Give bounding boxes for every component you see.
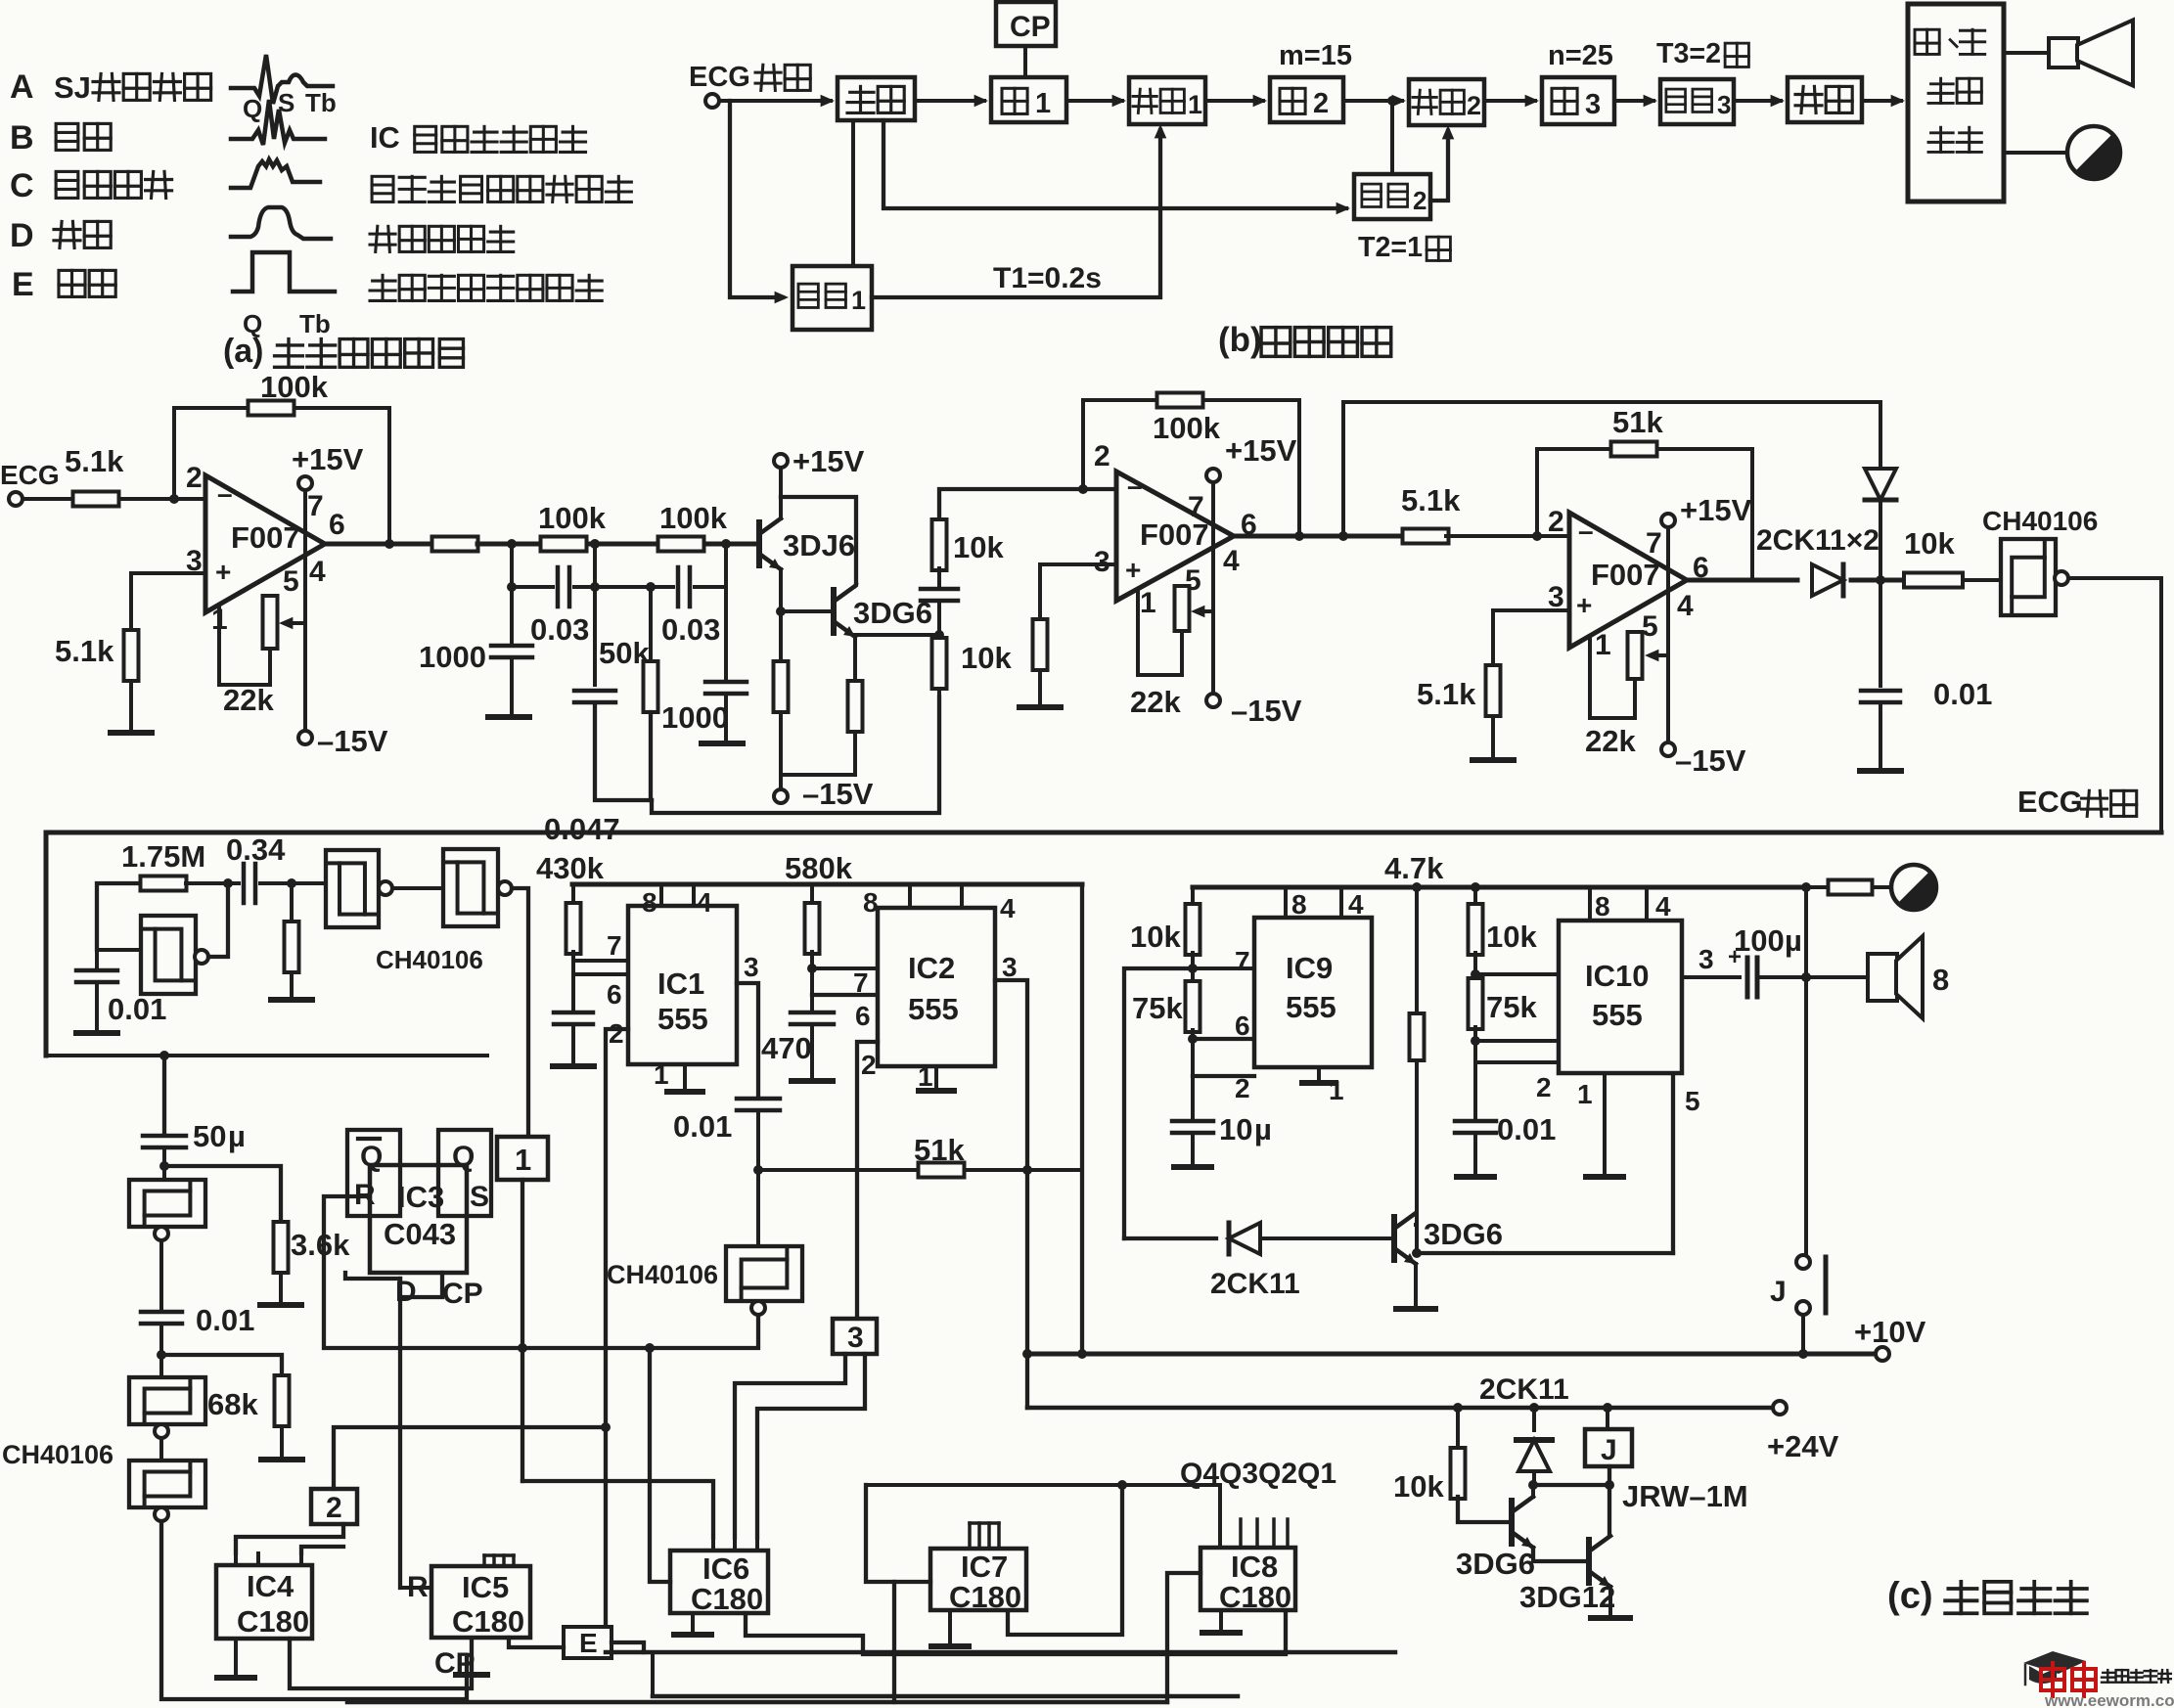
pin4 stub IC2: [960, 884, 964, 908]
wire +24V rail: [1027, 1406, 1773, 1411]
pin4 stub IC10: [1645, 887, 1649, 921]
svg-text:CH40106: CH40106: [2, 1440, 113, 1469]
label +15V transistors: [774, 454, 788, 468]
wire U1 pin1 down: [217, 608, 221, 685]
wire timing cap to ground: [571, 1026, 575, 1064]
svg-text:4: 4: [697, 887, 712, 918]
waveform C (rectified): [231, 159, 320, 188]
wire box3 route A to IC6: [735, 1354, 845, 1538]
ground below 3.6k: [260, 1302, 301, 1308]
svg-text:E: E: [579, 1628, 598, 1658]
svg-text:2: 2: [609, 1018, 624, 1049]
svg-text:1: 1: [1035, 88, 1051, 119]
svg-text:ECG: ECG: [2017, 785, 2083, 819]
IC2 555 body: [878, 908, 995, 1066]
svg-text:8: 8: [1932, 963, 1949, 997]
wire diode to node: [1851, 578, 1901, 583]
svg-text:2CK11: 2CK11: [1210, 1268, 1300, 1300]
svg-text:1: 1: [1188, 90, 1202, 119]
svg-text:µ: µ: [1785, 923, 1802, 958]
wire U2 offset loop bottom: [1138, 673, 1182, 677]
svg-text:50: 50: [193, 1119, 226, 1153]
svg-text:100k: 100k: [538, 501, 607, 535]
resistor 51k feedback U3: [1611, 442, 1657, 457]
svg-text:Tb: Tb: [299, 309, 331, 338]
resistor 1.75M: [141, 876, 187, 891]
wire counter1 to gate2: [1205, 99, 1263, 103]
transistor 3DJ6: [756, 522, 762, 565]
resistor 10k (IC10 top): [1469, 904, 1483, 955]
wire U2 pin3: [1040, 562, 1116, 566]
svg-text:50k: 50k: [599, 636, 650, 670]
resistor 5.1k (pin3 to gnd): [124, 630, 139, 681]
capacitor 0.01 (rectifier): [1861, 689, 1900, 694]
ground below 0.01: [1860, 768, 1901, 774]
wire timer2 up to counter2: [1430, 131, 1448, 201]
svg-text:J: J: [1770, 1276, 1787, 1308]
svg-text:3DG12: 3DG12: [1519, 1580, 1615, 1614]
potentiometer 22k U3: [1628, 632, 1643, 679]
svg-text:CP: CP: [1010, 11, 1051, 43]
IC8 top pins: [1239, 1519, 1243, 1548]
resistor 51k (row): [919, 1163, 965, 1178]
wire IC2 pin3 down to +24V rail: [1025, 1170, 1029, 1408]
resistor 10k (U2 pin3): [1033, 619, 1048, 670]
wire 430k to IC1 pin7: [571, 952, 575, 1009]
ground below 5.1k: [111, 730, 152, 736]
svg-text:4: 4: [1000, 893, 1016, 923]
wire control branch to timer2: [883, 120, 1346, 208]
block 门1 (gate1): [991, 77, 1066, 122]
wire IC1 pin7: [573, 959, 628, 963]
wire IC9 pin7: [1193, 966, 1254, 970]
svg-text:–: –: [1578, 516, 1594, 546]
node -15V terminal transistors: [779, 775, 783, 789]
wire U3 feedback left: [1535, 449, 1539, 536]
wire small schmitt out up to main: [208, 883, 228, 957]
svg-text:C180: C180: [1219, 1580, 1291, 1614]
wire 10k to pin7 (IC10): [1473, 953, 1477, 980]
wire collector rail: [781, 497, 856, 584]
pin4 stub IC1: [692, 884, 696, 906]
label +15V U3: [1661, 514, 1675, 527]
wire box2 up to y1459 line: [334, 1427, 606, 1489]
wire schmitt4 to schmitt5: [159, 1438, 163, 1461]
legend row C impl text: [372, 176, 393, 202]
wire timer1 to counter1 bottom: [872, 130, 1160, 297]
wire U2 pin1 down: [1136, 592, 1140, 675]
watermark 虫虫 red text: [2041, 1663, 2096, 1696]
diode 2CK11 (IC9 area): [1124, 1236, 1216, 1240]
pin1 stub IC1 + ground: [683, 1064, 687, 1089]
wiper arrow 22k U3: [1652, 653, 1668, 657]
wire chain top to U2 pin2: [939, 489, 1116, 521]
resistor 4.7k (collector): [1415, 887, 1419, 1015]
wire U1 output: [325, 542, 432, 547]
svg-text:–: –: [1127, 471, 1143, 501]
wire ECG branch down to timer1: [730, 101, 783, 297]
node schmitt1 output bubble: [379, 881, 392, 895]
wire IC2 pin7: [812, 966, 878, 970]
wire 3DJ6 collector up: [779, 497, 783, 518]
svg-text:+15V: +15V: [1225, 433, 1297, 468]
wire 470 to ground: [810, 1026, 814, 1079]
wire pin3 down to 5.1k: [129, 573, 133, 627]
svg-text:580k: 580k: [785, 851, 853, 885]
ground below 470: [792, 1078, 833, 1084]
svg-text:–15V: –15V: [1231, 694, 1302, 728]
wire 5.1k to U3 pin2: [1446, 534, 1569, 538]
resistor 100k feedback U1: [249, 401, 294, 416]
svg-text:+15V: +15V: [793, 444, 865, 478]
svg-text:IC6: IC6: [702, 1551, 749, 1586]
resistor 75k (IC10): [1469, 978, 1483, 1029]
wire bottom rail 1740: [347, 1700, 1167, 1705]
transistor 3DG6 (relay driver): [1509, 1501, 1515, 1544]
wire IC10 pin7: [1475, 972, 1559, 976]
wire 10k to CH40106: [1963, 578, 2001, 582]
svg-text:0.047: 0.047: [544, 812, 620, 846]
wire 4.7k power rail: [1193, 885, 1806, 890]
svg-text:+: +: [1576, 590, 1592, 620]
wire rail junction down to J switch: [1804, 887, 1808, 1255]
svg-text:7: 7: [607, 930, 622, 961]
wire counter2 to gate3: [1484, 99, 1535, 103]
svg-text:0.03: 0.03: [530, 612, 589, 647]
svg-text:10k: 10k: [1486, 920, 1537, 954]
wire 3DG6 emitter to 3DG12 base: [1533, 1548, 1587, 1561]
wire Q row: [866, 1483, 1220, 1487]
wire +10V rail: [1027, 1352, 1876, 1357]
resistor 75k (IC9): [1186, 981, 1200, 1032]
svg-text:4: 4: [1223, 545, 1240, 577]
potentiometer 22k U2: [1175, 586, 1190, 631]
svg-text:3DG6: 3DG6: [1424, 1217, 1503, 1251]
svg-text:10: 10: [1219, 1112, 1252, 1146]
wire Q row mid down: [1008, 1485, 1122, 1635]
svg-text:6: 6: [855, 1001, 871, 1031]
wire 3DG6 emitter to ground: [1414, 1264, 1418, 1306]
svg-text:D: D: [10, 217, 34, 254]
wire control to gate1: [915, 99, 984, 103]
svg-text:555: 555: [657, 1002, 708, 1036]
wire 4.7k res to 3DG6 collector: [1415, 1060, 1419, 1253]
node schmitt(IC1) output bubble: [751, 1301, 765, 1315]
wire R line to IC5: [400, 1586, 431, 1590]
op-amp U3 F007: [1569, 513, 1687, 648]
IC6 top pins: [711, 1538, 715, 1551]
schmitt inverter 2 (CH40106): [443, 849, 498, 926]
svg-text:8: 8: [1291, 889, 1307, 920]
capacitor 100u electrolytic: [1745, 958, 1750, 997]
watermark logo cap: [2023, 1651, 2086, 1674]
svg-text:C: C: [10, 167, 34, 204]
wire +15V down through U2 to -15V: [1211, 482, 1215, 694]
block 计数2 (counter2): [1409, 79, 1484, 125]
wiper arrow 22k U2: [1198, 609, 1213, 613]
svg-text:6: 6: [1235, 1011, 1250, 1041]
wire rail to 10k (IC10): [1473, 887, 1477, 906]
wire 1.75M to 0.34 cap: [186, 881, 239, 885]
svg-text:2CK11×2: 2CK11×2: [1756, 524, 1880, 557]
svg-text:0.01: 0.01: [1497, 1112, 1556, 1146]
wire rectifier top rail: [1343, 400, 1880, 404]
wire IC1 pin3: [737, 983, 758, 1097]
wire 10u to ground: [1191, 1135, 1195, 1164]
wire IC10 pin2: [1475, 1060, 1559, 1064]
svg-text:430k: 430k: [536, 851, 605, 885]
svg-text:5: 5: [1642, 610, 1658, 643]
svg-text:Q4Q3Q2Q1: Q4Q3Q2Q1: [1180, 1458, 1336, 1490]
svg-text:3: 3: [1094, 546, 1110, 578]
resistor emitter 3DG6: [848, 681, 863, 732]
svg-text:0.01: 0.01: [196, 1303, 254, 1337]
capacitor 0.01 (left): [95, 950, 99, 969]
capacitor 1000 #2: [705, 680, 747, 685]
svg-text:E: E: [12, 266, 34, 303]
node schmitt3 output bubble: [155, 1227, 168, 1240]
svg-text:F007: F007: [1591, 558, 1660, 592]
wire 3DJ6 emitter to 3DG6 base: [781, 609, 832, 613]
wire E box to rail: [611, 1642, 644, 1652]
wire CH40106 out to right edge: [2068, 576, 2161, 580]
wire ECG to R 5.1k: [23, 497, 73, 501]
capacitor 50u: [143, 1134, 186, 1139]
wire 1000#2 to ground: [724, 696, 728, 742]
wire control to timer1 vertical: [851, 120, 855, 297]
wire 10k2 bottom to U loop: [937, 689, 941, 697]
ground below 5.1k U3: [1472, 757, 1514, 763]
svg-text:5.1k: 5.1k: [1417, 677, 1476, 711]
wire CP to gate1: [1023, 46, 1027, 77]
svg-text:1: 1: [1329, 1075, 1344, 1105]
wire node down to 0.01 cap: [1879, 580, 1882, 686]
svg-text:S: S: [470, 1181, 489, 1213]
svg-text:1: 1: [851, 286, 866, 315]
svg-text:5.1k: 5.1k: [1401, 483, 1461, 517]
node +15V terminal U1: [298, 476, 312, 490]
IC7 top pins: [968, 1523, 972, 1549]
wire node B down through cap line: [593, 544, 597, 685]
pin8 stub IC10: [1588, 887, 1592, 921]
wire U1 pin3: [131, 571, 205, 575]
svg-text:IC5: IC5: [462, 1570, 509, 1604]
pin1 stub IC2 + ground: [934, 1066, 938, 1088]
resistor 10k (chain top): [932, 519, 947, 570]
resistor pulldown after 0.34: [285, 921, 299, 972]
IC4 top pins: [234, 1553, 238, 1565]
svg-text:2: 2: [326, 1492, 342, 1524]
svg-text:555: 555: [1286, 990, 1336, 1024]
svg-text:C180: C180: [237, 1604, 309, 1639]
IC6 C180 body: [670, 1551, 768, 1613]
ground below 68k: [261, 1457, 302, 1462]
wire IC10 pin3 to 100u cap: [1682, 975, 1740, 979]
svg-text:1: 1: [918, 1061, 933, 1092]
svg-text:–: –: [217, 478, 233, 509]
wire 0.01 left to ground: [95, 984, 99, 1031]
node schmitt4 output bubble: [155, 1424, 168, 1438]
wire 3DG6 collector to 4.7k: [1416, 1223, 1417, 1227]
wire J to +10V rail: [1801, 1315, 1805, 1354]
svg-text:22k: 22k: [223, 683, 274, 717]
wire R5.1k to op-amp U1 pin2: [119, 497, 205, 501]
wire +15V to collector rail: [779, 468, 783, 497]
schmitt inverter (feedback small): [141, 916, 196, 994]
transistor 3DG6 (alarm): [1391, 1217, 1397, 1260]
ground below pulldown: [271, 997, 312, 1003]
svg-text:7: 7: [307, 490, 324, 522]
wire 75k to pin6/pin2 (IC10): [1473, 1027, 1477, 1119]
label E (IC5) in box: [564, 1627, 611, 1658]
svg-text:+: +: [1125, 555, 1141, 585]
wire node C down to 1000 cap 2: [724, 544, 728, 681]
wire U2 pin3 down to 10k: [1038, 564, 1042, 619]
svg-text:0.01: 0.01: [1933, 677, 1992, 711]
capacitor 0.34: [242, 864, 247, 903]
pin8 stub IC1: [659, 884, 663, 906]
wire IC1 pin2 long vertical: [606, 1029, 628, 1652]
svg-text:+10V: +10V: [1854, 1315, 1926, 1349]
wire 0.34 to schmitt1: [260, 881, 326, 885]
wire gate2 to counter2: [1343, 99, 1402, 103]
capacitor 1000 (node A): [491, 644, 532, 649]
svg-text:8: 8: [1595, 891, 1610, 921]
schmitt trigger CH40106 (top right): [2001, 539, 2056, 615]
wire Q row to IC7: [866, 1485, 894, 1582]
wire feedback right vertical U1: [387, 408, 391, 544]
svg-text:5.1k: 5.1k: [55, 634, 114, 668]
svg-text:n=25: n=25: [1548, 40, 1613, 71]
switch J upper contact: [1796, 1255, 1810, 1269]
wire 5.1k U3 to ground: [1491, 716, 1495, 758]
block 控制 (control): [838, 77, 915, 120]
svg-text:C180: C180: [691, 1582, 763, 1616]
wire resistor to lamp: [1873, 885, 1891, 889]
wire schmitt5 out down to bottom U: [161, 1521, 467, 1699]
resistor emitter 3DJ6: [774, 661, 789, 712]
wire 1.75M row (monostable): [97, 883, 141, 950]
capacitor 0.03 #1: [556, 567, 561, 607]
svg-text:3.6k: 3.6k: [291, 1228, 350, 1262]
svg-text:CH40106: CH40106: [1982, 506, 2098, 536]
wire node A down to 1000pF cap: [510, 544, 514, 644]
svg-text:3: 3: [1717, 90, 1731, 119]
wire right edge down to ECG pulse line: [2159, 578, 2163, 832]
wire 3DJ6 emitter down: [779, 569, 783, 661]
wire -15V rail transistors: [781, 773, 855, 777]
svg-text:C180: C180: [452, 1604, 524, 1639]
box Q-bar (IC3): [347, 1130, 400, 1216]
resistor 68k: [275, 1375, 290, 1426]
svg-text:1000: 1000: [661, 700, 729, 735]
wire feedback left vertical U1: [172, 408, 176, 499]
svg-text:0.34: 0.34: [226, 832, 286, 867]
svg-text:–15V: –15V: [317, 724, 388, 758]
svg-text:2: 2: [1548, 506, 1564, 538]
svg-text:IC8: IC8: [1231, 1550, 1278, 1584]
wire collector row to IC10 pin5: [1417, 1251, 1673, 1255]
svg-text:1000: 1000: [419, 640, 486, 674]
wire U3 feedback right: [1750, 449, 1754, 580]
wire 0.047 to bottom U: [595, 704, 652, 800]
pin4 stub IC9: [1339, 887, 1343, 918]
wire diode to 3DG6 base: [1260, 1236, 1392, 1240]
pin1 stub IC10 + ground: [1603, 1073, 1607, 1174]
svg-text:2: 2: [1413, 186, 1427, 215]
wire 50k top to cap row: [649, 587, 653, 661]
svg-text:CH40106: CH40106: [607, 1260, 718, 1289]
op-amp U1 F007: [205, 475, 325, 612]
wire 580k to IC2 pin7: [810, 952, 814, 1009]
svg-text:4: 4: [309, 556, 326, 588]
wire 10k to pin7 junction: [1191, 953, 1195, 983]
svg-text:10k: 10k: [1130, 920, 1181, 954]
svg-text:1: 1: [1140, 587, 1156, 619]
wire IC2 pin6: [812, 993, 878, 997]
svg-text:5: 5: [1685, 1086, 1700, 1116]
svg-text:IC2: IC2: [908, 951, 955, 985]
IC6 bottom-right pin wire: [746, 1610, 1286, 1654]
wire U2 feedback left: [1081, 400, 1085, 489]
svg-text:2: 2: [1313, 88, 1329, 119]
node -15V terminal U2: [1206, 694, 1220, 707]
IC6 bottom-left pin + ground: [691, 1613, 695, 1632]
wire 3DG6 collector: [855, 584, 856, 586]
op-amp U2 F007: [1116, 472, 1234, 601]
svg-text:555: 555: [908, 992, 959, 1026]
wire 3DG6 emitter down: [853, 637, 857, 681]
wire output resistor to filter: [477, 542, 541, 547]
svg-text:–15V: –15V: [802, 777, 874, 811]
schmitt inverter 4 (CH40106 label): [129, 1377, 205, 1424]
svg-text:0.03: 0.03: [661, 612, 720, 647]
wire U2 output: [1234, 534, 1404, 539]
wire 555 rail right vertical: [1080, 884, 1084, 1354]
capacitor 0.01 (chain): [141, 1310, 182, 1315]
speaker icon (block diagram): [2049, 38, 2078, 67]
wire junction2 right to 68k: [161, 1355, 282, 1379]
pin8 stub IC9: [1284, 887, 1288, 918]
IC8 left pin wire: [1167, 1573, 1200, 1702]
ground below 1000 cap: [488, 714, 529, 720]
wire IC1 pin6: [573, 972, 628, 976]
wire left boundary (IC9 stage): [1124, 968, 1193, 1238]
wire U3 offset loop bottom: [1590, 716, 1635, 720]
svg-text:8: 8: [642, 887, 657, 918]
wire IC3 CP down to R line: [400, 1273, 442, 1297]
schmitt inverter 3 (3.6k one): [129, 1180, 205, 1227]
box 1 (net tag): [497, 1137, 548, 1180]
svg-text:5: 5: [283, 565, 299, 598]
resistor 10k (IC9 top): [1186, 904, 1200, 955]
svg-text:2CK11: 2CK11: [1479, 1373, 1569, 1406]
wire cap row right: [695, 585, 726, 589]
wire 68k to ground: [280, 1426, 284, 1458]
ground below 10u: [1174, 1164, 1211, 1170]
svg-text:T3=2: T3=2: [1656, 38, 1721, 69]
wire rail to lamp resistor: [1806, 885, 1829, 889]
svg-text:ECG: ECG: [0, 460, 60, 490]
svg-text:100: 100: [1734, 923, 1785, 958]
svg-text:10k: 10k: [1393, 1469, 1444, 1504]
wire 50u to junction: [162, 1149, 166, 1180]
wire into small schmitt: [97, 948, 141, 952]
IC5 E pin route: [509, 1638, 564, 1647]
wire rail to 10k (relay driver): [1456, 1408, 1460, 1450]
svg-text:C180: C180: [949, 1580, 1021, 1614]
zener diode 2CK11 (relay): [1532, 1408, 1536, 1430]
